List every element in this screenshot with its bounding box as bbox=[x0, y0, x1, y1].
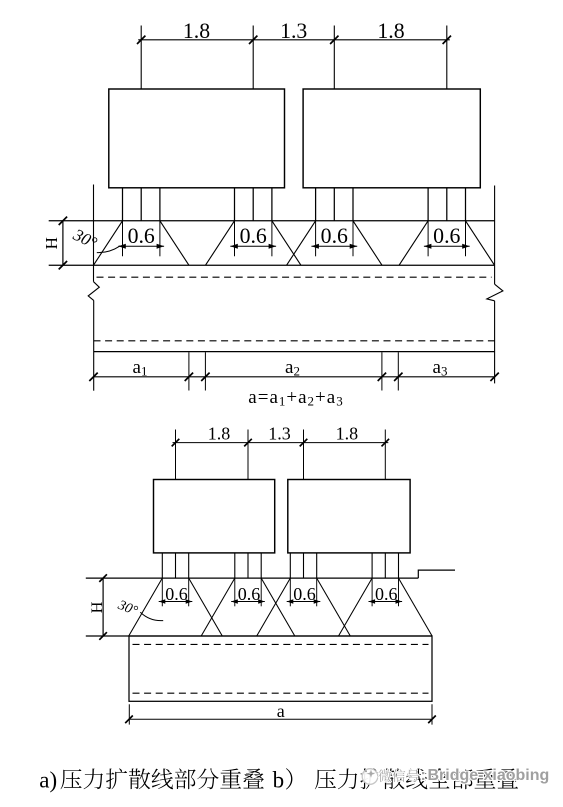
svg-text:1.8: 1.8 bbox=[377, 19, 404, 43]
svg-text:Bridge-xiaobing: Bridge-xiaobing bbox=[428, 767, 550, 784]
svg-text:1.8: 1.8 bbox=[208, 423, 231, 443]
svg-text:0.6: 0.6 bbox=[238, 584, 261, 604]
svg-text:H: H bbox=[89, 601, 106, 613]
svg-text:a): a) bbox=[39, 768, 57, 793]
svg-text:0.6: 0.6 bbox=[375, 584, 398, 604]
svg-text:0.6: 0.6 bbox=[165, 584, 188, 604]
svg-text:H: H bbox=[42, 237, 61, 249]
svg-text:0.6: 0.6 bbox=[240, 224, 267, 248]
svg-text:0.6: 0.6 bbox=[293, 584, 316, 604]
svg-text:0.6: 0.6 bbox=[321, 224, 348, 248]
svg-text:0.6: 0.6 bbox=[128, 224, 155, 248]
svg-text:a=a1+a2+a3: a=a1+a2+a3 bbox=[248, 387, 343, 409]
svg-text:b: b bbox=[273, 768, 285, 793]
svg-text:1.8: 1.8 bbox=[336, 423, 359, 443]
svg-text:a: a bbox=[277, 701, 285, 721]
svg-text:1.8: 1.8 bbox=[183, 19, 210, 43]
svg-text:0.6: 0.6 bbox=[433, 224, 460, 248]
svg-text:1.3: 1.3 bbox=[268, 423, 291, 443]
svg-text:1.3: 1.3 bbox=[280, 19, 307, 43]
svg-text::: : bbox=[421, 767, 426, 784]
